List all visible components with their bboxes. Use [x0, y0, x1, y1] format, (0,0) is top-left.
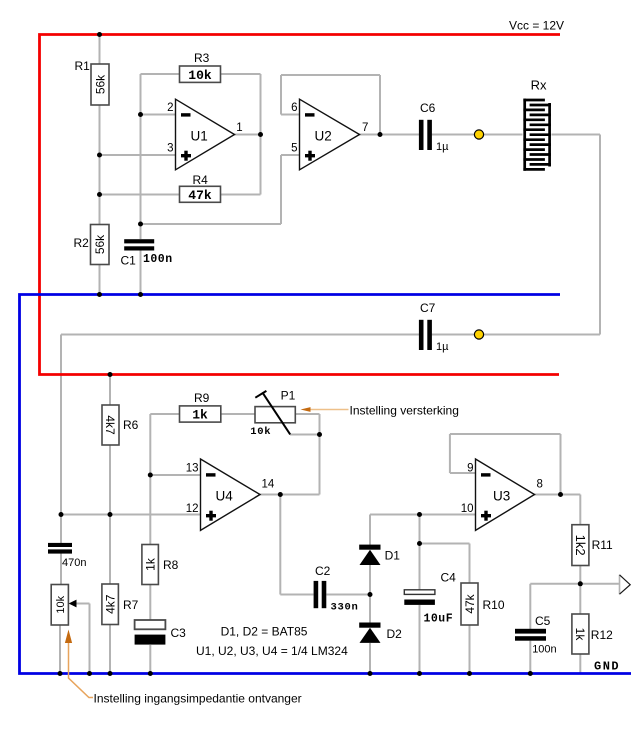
- svg-text:100n: 100n: [532, 643, 556, 655]
- svg-text:P1: P1: [281, 388, 296, 402]
- svg-text:1µ: 1µ: [436, 141, 449, 153]
- svg-text:C1: C1: [121, 254, 137, 268]
- svg-text:1k: 1k: [144, 557, 158, 571]
- svg-text:GND: GND: [594, 660, 620, 674]
- svg-text:Instelling ingangsimpedantie o: Instelling ingangsimpedantie ontvanger: [94, 692, 302, 706]
- svg-text:1: 1: [236, 122, 242, 134]
- svg-text:2: 2: [167, 102, 173, 114]
- svg-text:5: 5: [291, 143, 297, 155]
- svg-text:10k: 10k: [188, 68, 212, 83]
- svg-text:3: 3: [167, 143, 173, 155]
- svg-text:R2: R2: [74, 236, 90, 250]
- svg-text:R4: R4: [193, 173, 209, 187]
- svg-text:Rx: Rx: [531, 78, 547, 93]
- svg-text:13: 13: [186, 463, 199, 475]
- svg-text:330n: 330n: [331, 602, 359, 614]
- svg-text:10uF: 10uF: [424, 613, 454, 626]
- svg-text:R6: R6: [123, 418, 139, 432]
- svg-text:9: 9: [467, 463, 473, 475]
- svg-text:D1, D2 = BAT85: D1, D2 = BAT85: [221, 625, 308, 639]
- svg-text:1k: 1k: [192, 408, 208, 423]
- svg-text:C7: C7: [420, 301, 436, 315]
- svg-text:12: 12: [186, 503, 199, 515]
- svg-text:6: 6: [291, 102, 297, 114]
- svg-text:1µ: 1µ: [436, 341, 449, 353]
- svg-text:U2: U2: [315, 129, 332, 144]
- svg-text:10k: 10k: [250, 426, 271, 438]
- svg-text:47k: 47k: [188, 188, 212, 203]
- svg-text:56k: 56k: [93, 74, 107, 94]
- svg-text:R9: R9: [194, 391, 210, 405]
- svg-text:8: 8: [537, 479, 543, 491]
- svg-text:Instelling versterking: Instelling versterking: [350, 404, 459, 418]
- svg-text:4k7: 4k7: [103, 415, 117, 435]
- svg-text:U1: U1: [191, 129, 208, 144]
- svg-text:Vcc = 12V: Vcc = 12V: [509, 19, 564, 33]
- svg-text:C4: C4: [441, 571, 457, 585]
- svg-text:1k2: 1k2: [573, 535, 588, 556]
- svg-text:R11: R11: [592, 538, 613, 552]
- svg-text:C5: C5: [535, 614, 551, 628]
- svg-text:D1: D1: [385, 549, 401, 563]
- svg-text:1k: 1k: [573, 628, 587, 642]
- svg-text:10: 10: [461, 503, 474, 515]
- svg-text:7: 7: [362, 122, 368, 134]
- svg-text:U4: U4: [216, 489, 234, 504]
- svg-text:U1, U2, U3, U4 = 1/4 LM324: U1, U2, U3, U4 = 1/4 LM324: [196, 644, 348, 658]
- svg-text:4k7: 4k7: [104, 594, 118, 614]
- svg-text:R10: R10: [483, 598, 505, 612]
- svg-text:R12: R12: [591, 628, 613, 642]
- svg-text:47k: 47k: [463, 593, 477, 613]
- svg-text:C2: C2: [315, 564, 331, 578]
- svg-text:14: 14: [262, 479, 275, 491]
- svg-text:10k: 10k: [55, 595, 67, 613]
- svg-text:100n: 100n: [143, 253, 173, 266]
- svg-text:U3: U3: [493, 489, 510, 504]
- svg-text:C6: C6: [420, 101, 436, 115]
- svg-text:R8: R8: [163, 558, 179, 572]
- svg-text:R3: R3: [194, 51, 210, 65]
- svg-text:C3: C3: [171, 626, 187, 640]
- svg-text:D2: D2: [387, 627, 403, 641]
- svg-text:470n: 470n: [62, 557, 86, 569]
- svg-text:56k: 56k: [93, 234, 107, 254]
- svg-text:R1: R1: [75, 59, 91, 73]
- svg-text:R7: R7: [123, 598, 139, 612]
